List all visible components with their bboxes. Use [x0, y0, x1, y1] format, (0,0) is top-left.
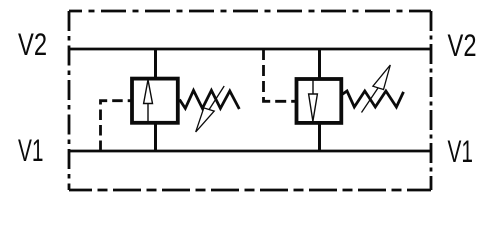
wire: right valve bottom stem: [318, 123, 321, 151]
wire: V2 line: [69, 48, 431, 51]
enclosure frame right (dash-dot): [430, 11, 433, 190]
svg-text:V1: V1: [448, 133, 474, 169]
enclosure frame bottom (dash-dot): [69, 189, 431, 192]
svg-text:V2: V2: [18, 26, 47, 62]
wire: left valve bottom stem: [154, 123, 157, 151]
spring of relief valve 1: [180, 90, 240, 109]
relief valve 1 body (square): [132, 79, 178, 123]
relief valve 2 internal flow arrow (down): [309, 80, 318, 122]
wire: V1 line: [69, 150, 431, 153]
svg-text:V2: V2: [448, 27, 477, 63]
adjustment arrow of relief valve 2 (points up-right): [362, 65, 391, 113]
relief valve 1 internal flow arrow (up): [144, 80, 153, 123]
enclosure frame left (dash-dot): [68, 11, 71, 190]
svg-text:V1: V1: [18, 132, 44, 168]
relief valve 2 body (square): [297, 79, 342, 123]
wire: right valve top stem: [318, 49, 321, 80]
wire: left valve top stem: [154, 49, 157, 79]
spring of relief valve 2: [342, 91, 404, 107]
pilot line of relief valve 2 (dashed, from V2): [264, 49, 297, 101]
enclosure frame top (dash-dot): [69, 10, 431, 13]
adjustment arrow of relief valve 1 (points down-left): [196, 86, 225, 132]
pilot line of relief valve 1 (dashed, from V1): [101, 101, 133, 151]
